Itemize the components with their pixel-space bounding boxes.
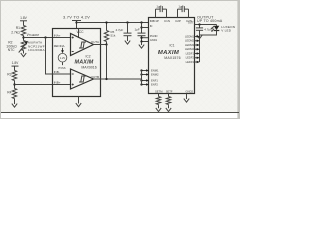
svg-text:104J03RA: 104J03RA bbox=[28, 48, 45, 52]
svg-text:51k: 51k bbox=[111, 34, 116, 38]
svg-text:INP: INP bbox=[150, 19, 155, 23]
wire OUTA down to OUTB net bbox=[106, 45, 108, 80]
svg-text:C2P: C2P bbox=[175, 19, 181, 23]
svg-text:GND2: GND2 bbox=[186, 89, 194, 93]
resistor R1 bbox=[21, 26, 25, 36]
resistor R5 pull-up bbox=[106, 23, 108, 31]
svg-text:VCC: VCC bbox=[77, 30, 85, 34]
capacitor C1 4.7uF input bbox=[126, 21, 128, 23]
resistor R3 bbox=[12, 71, 16, 81]
pin ENF1 bbox=[142, 80, 147, 82]
svg-text:1μF: 1μF bbox=[135, 28, 140, 32]
ground (thermistor) bbox=[21, 51, 26, 57]
ground (SETM) bbox=[156, 105, 161, 111]
node VTHERM bbox=[22, 36, 24, 38]
pin LEDM4 bbox=[195, 48, 198, 50]
svg-text:C1N: C1N bbox=[164, 19, 170, 23]
wire IN branch bbox=[140, 26, 142, 28]
svg-text:SETF: SETF bbox=[166, 89, 173, 93]
ground (C1) bbox=[125, 38, 130, 44]
svg-text:PGND: PGND bbox=[150, 34, 158, 38]
svg-text:VTHERM: VTHERM bbox=[27, 33, 40, 37]
svg-text:1.8V: 1.8V bbox=[12, 61, 20, 65]
node OUTA/R5 bbox=[105, 43, 107, 45]
svg-text:R1: R1 bbox=[16, 26, 20, 30]
pin LEDM1 bbox=[195, 36, 198, 38]
pin ENF2 bbox=[142, 84, 147, 86]
svg-text:1μF: 1μF bbox=[178, 5, 183, 9]
svg-text:LEDF1: LEDF1 bbox=[186, 51, 195, 55]
capacitor C3 1uF flying bbox=[156, 6, 167, 12]
capacitor C5 4.7uF output bbox=[198, 23, 200, 25]
wire VTHERM to INA+ bbox=[24, 37, 71, 39]
svg-text:IC1: IC1 bbox=[170, 44, 175, 48]
svg-text:IC2: IC2 bbox=[86, 55, 91, 59]
svg-text:LEDF2: LEDF2 bbox=[186, 56, 195, 60]
svg-text:NTC: NTC bbox=[8, 48, 15, 52]
svg-text:V LED: V LED bbox=[221, 29, 232, 33]
ground (C5) bbox=[197, 33, 202, 39]
svg-text:R3: R3 bbox=[7, 72, 11, 76]
svg-text:2.7kΩ: 2.7kΩ bbox=[11, 31, 20, 35]
svg-text:LEDM3: LEDM3 bbox=[185, 43, 194, 47]
svg-text:INB+: INB+ bbox=[54, 80, 61, 84]
svg-text:LEDM2: LEDM2 bbox=[185, 39, 194, 43]
svg-text:UP TO 400mA: UP TO 400mA bbox=[197, 19, 223, 23]
op-amp IC2 MAX9016 box bbox=[53, 29, 101, 97]
border frame bbox=[1, 1, 240, 119]
svg-text:LEDM1: LEDM1 bbox=[185, 34, 194, 38]
svg-text:OUT: OUT bbox=[188, 21, 194, 25]
svg-text:ENM1: ENM1 bbox=[151, 69, 159, 73]
resistor R7 (SETF) bbox=[166, 97, 170, 105]
wire EN bus bbox=[141, 71, 143, 85]
LED driver IC1 MAX1576 box bbox=[149, 18, 195, 94]
svg-text:1.2V: 1.2V bbox=[60, 56, 66, 60]
wire bbox=[23, 21, 25, 26]
wire bbox=[14, 66, 16, 70]
ground (IC2 GND pin) bbox=[78, 97, 80, 101]
resistor R4 bbox=[12, 89, 16, 99]
svg-text:4.7μF: 4.7μF bbox=[204, 27, 212, 31]
svg-text:4.7μF: 4.7μF bbox=[116, 28, 124, 32]
svg-text:LEDM4: LEDM4 bbox=[185, 47, 194, 51]
svg-text:1.8V: 1.8V bbox=[20, 16, 28, 20]
wire supply rail bbox=[77, 22, 149, 24]
resistor R2 (NTC thermistor) bbox=[21, 41, 25, 51]
svg-text:ENF1: ENF1 bbox=[151, 79, 158, 83]
svg-text:MAX1576: MAX1576 bbox=[164, 56, 180, 60]
svg-text:GND1: GND1 bbox=[150, 38, 158, 42]
pin C1P flying cap stubs bbox=[155, 9, 157, 17]
ground (C2/PGND) bbox=[139, 42, 144, 48]
svg-text:1μF: 1μF bbox=[156, 5, 161, 9]
svg-text:REF/INA-: REF/INA- bbox=[54, 44, 66, 48]
wire PGND/GND stubs bbox=[142, 37, 149, 39]
ground (R4) bbox=[14, 99, 16, 102]
wire bbox=[14, 81, 16, 89]
LED D1 LUXEON bbox=[216, 25, 218, 26]
svg-text:MAX9016: MAX9016 bbox=[81, 65, 96, 69]
svg-text:SETM: SETM bbox=[155, 89, 163, 93]
ground (SETF) bbox=[166, 105, 171, 111]
capacitor C4 1uF flying bbox=[178, 6, 189, 12]
wire INB- branch bbox=[46, 38, 71, 75]
svg-text:ENF2: ENF2 bbox=[151, 83, 158, 87]
capacitor C2 1uF input bbox=[140, 21, 142, 23]
pin LEDF3 bbox=[195, 61, 198, 63]
pin LEDF2 bbox=[195, 57, 198, 59]
svg-text:R4: R4 bbox=[7, 90, 11, 94]
pin LEDF1 bbox=[195, 53, 198, 55]
pin ENM1 bbox=[142, 70, 147, 72]
svg-text:LEDF3: LEDF3 bbox=[186, 60, 195, 64]
wire to INB+ bbox=[15, 84, 71, 86]
wire bbox=[23, 36, 25, 41]
wire LED cathode to LED pins bus bbox=[200, 31, 217, 63]
node junction to INB- bbox=[44, 36, 46, 38]
svg-text:IN: IN bbox=[150, 24, 153, 28]
resistor R6 (SETM) bbox=[156, 97, 160, 105]
svg-text:3.7V TO 4.2V: 3.7V TO 4.2V bbox=[63, 15, 90, 20]
bottom rule bbox=[1, 112, 239, 114]
pin LEDM2 bbox=[195, 40, 198, 42]
ground (IC1 GND) bbox=[184, 96, 189, 102]
svg-text:ENM2: ENM2 bbox=[151, 73, 159, 77]
comparator U1A bbox=[71, 34, 94, 56]
pin LEDM3 bbox=[195, 44, 198, 46]
pin ENM2 bbox=[142, 74, 147, 76]
node R3/R4 junction bbox=[13, 83, 15, 85]
svg-text:OUTA: OUTA bbox=[91, 40, 99, 44]
svg-text:INA+: INA+ bbox=[54, 34, 61, 38]
comparator U1B bbox=[71, 69, 94, 89]
pin C2P flying cap stubs bbox=[177, 9, 179, 17]
